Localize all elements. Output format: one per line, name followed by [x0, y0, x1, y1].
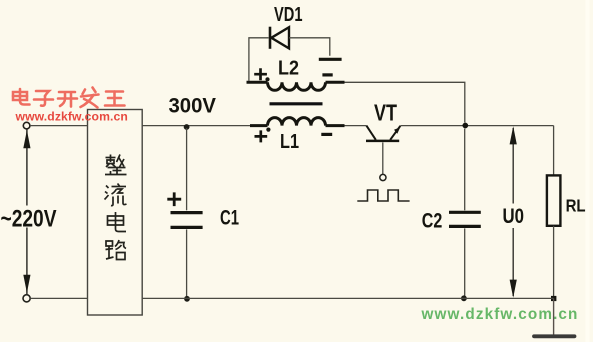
L2 phase dot [265, 77, 269, 81]
开 [59, 91, 75, 94]
node 300V junction [184, 124, 190, 130]
bottom rail [142, 297, 553, 299]
wire L2+ up to VD1 [249, 38, 269, 81]
svg-text:C1: C1 [220, 205, 239, 229]
inductor L1 [250, 118, 345, 126]
label U0 [500, 204, 526, 228]
U0 arrow line [512, 128, 514, 296]
svg-text:VT: VT [374, 100, 397, 126]
source arrow down [23, 275, 30, 293]
发 [83, 90, 86, 95]
clamp plate bar [319, 58, 342, 61]
L1 minus [321, 133, 332, 136]
source arrow up [23, 130, 30, 148]
capacitor C2 [464, 129, 466, 211]
node C2 bottom [461, 295, 467, 301]
transistor VT [366, 126, 400, 141]
resistor RL [547, 175, 561, 225]
VT base lead [382, 142, 384, 174]
L2 plus [254, 68, 267, 80]
wire VD1 to clamp bar [289, 38, 330, 56]
glyph 路 (box text 4) [106, 240, 127, 260]
wire bottom-left to box [30, 297, 87, 299]
inductor L2 [247, 82, 345, 90]
L1 plus [255, 130, 268, 142]
transformer core [270, 102, 323, 105]
svg-text:~220V: ~220V [1, 205, 57, 232]
svg-text:VD1: VD1 [274, 4, 303, 26]
top rail box to L1 [142, 125, 250, 127]
wire RL to bottom rail [553, 226, 555, 299]
wire L2 to output node [345, 82, 465, 122]
svg-text:RL: RL [566, 196, 586, 216]
source line [26, 130, 28, 295]
svg-text:U0: U0 [503, 204, 525, 228]
diode VD1 [270, 27, 289, 49]
pulse waveform [357, 190, 409, 201]
terminal bottom-left [23, 295, 30, 302]
L2 minus [322, 73, 332, 76]
glyph 电 (box text 3) [108, 212, 127, 232]
U0 arrowhead down [510, 280, 517, 298]
C1 plus [167, 192, 181, 206]
rectifier box 整流电路 [88, 110, 143, 316]
svg-text:300V: 300V [169, 94, 217, 118]
red watermark 电子开发王 (calligraphy) [13, 88, 125, 108]
电 [19, 89, 22, 101]
wire top-left to box [30, 125, 88, 127]
svg-text:C2: C2 [422, 209, 443, 233]
U0 arrowhead up [510, 126, 517, 144]
子 [36, 91, 49, 96]
capacitor C1 [186, 128, 188, 210]
node output junction [462, 123, 468, 129]
wire VT to output node [400, 125, 553, 127]
svg-text:L2: L2 [278, 58, 299, 80]
glyph 流 (box text 2) [105, 184, 127, 206]
node C1 bottom [184, 296, 190, 302]
base drive terminal [380, 174, 386, 180]
王 [106, 90, 123, 93]
wire L1 to VT [345, 125, 367, 127]
L1 phase dot [266, 128, 270, 132]
terminal top-left [23, 122, 30, 129]
svg-text:L1: L1 [280, 131, 299, 153]
node RL bottom [551, 296, 556, 301]
glyph 整 (box text 1) [105, 155, 127, 175]
ground [534, 334, 575, 338]
svg-text:www.dzkfw.com.cn: www.dzkfw.com.cn [15, 110, 128, 124]
VT emitter arrow [394, 127, 400, 134]
svg-text:www.dzkfw.com.cn: www.dzkfw.com.cn [421, 306, 579, 323]
right rail down to RL [553, 126, 555, 176]
ground lead [553, 298, 555, 334]
